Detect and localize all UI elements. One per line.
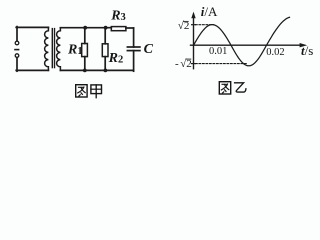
resistor R1 box (82, 44, 88, 57)
terminal lower (15, 54, 19, 58)
wire secondary bottom (60, 69, 133, 71)
wire primary top (16, 26, 48, 28)
图 inner strokes (221, 84, 228, 93)
svg-text:R2: R2 (108, 51, 124, 66)
transformer core line 2 (54, 29, 56, 68)
terminal upper (15, 41, 19, 45)
甲 mid horizontal (91, 88, 102, 90)
wire primary bottom (16, 69, 48, 71)
y-axis arrowhead (191, 12, 195, 19)
sqrt2 vinculum (184, 20, 189, 22)
dashed line sqrt2 (196, 24, 214, 26)
图 inner strokes (78, 87, 85, 96)
AC source dash (15, 49, 19, 51)
svg-text:0.01: 0.01 (209, 46, 227, 57)
caption 图甲 hand-drawn (76, 85, 102, 98)
wire capacitor to bottom (133, 51, 135, 72)
node top R1 (83, 26, 87, 30)
transformer core line 1 (51, 29, 53, 68)
wire secondary top (60, 27, 111, 29)
甲 center vertical (95, 85, 97, 98)
wire secondary top right of R3 (126, 27, 134, 29)
caption 图乙 hand-drawn (219, 82, 246, 94)
svg-text:-√2: -√2 (175, 58, 192, 70)
图 of 图乙: outer box (219, 82, 230, 94)
tick -sqrt2 (192, 63, 196, 65)
svg-text:0.02: 0.02 (266, 47, 284, 58)
x-axis arrowhead (300, 43, 308, 47)
capacitor C plates (127, 46, 139, 48)
svg-text:C: C (144, 42, 154, 57)
svg-text:t/s: t/s (301, 43, 313, 58)
svg-text:i/A: i/A (201, 4, 218, 19)
svg-text:R3: R3 (110, 9, 126, 24)
node bottom R1 (83, 69, 87, 73)
wire R2 branch top (104, 28, 106, 44)
wire primary left lower (16, 57, 18, 71)
wire primary left upper (16, 27, 18, 42)
wire R1 branch top (84, 28, 86, 44)
x-axis (191, 44, 302, 46)
transformer secondary coil (57, 28, 61, 71)
resistor R3 box (111, 27, 126, 31)
resistor R2 box (102, 44, 108, 57)
node bottom R2 (104, 69, 108, 73)
graph: y-axis (193, 15, 195, 69)
sine curve i(t) (194, 17, 290, 66)
tick sqrt2 (192, 24, 196, 26)
dashed line -sqrt2 (196, 63, 248, 65)
乙 of 图乙 (235, 83, 246, 92)
node top R2 (104, 26, 108, 30)
wire R2 branch bottom (104, 57, 106, 71)
wire R1 branch bottom (84, 57, 86, 71)
图 of 图甲: outer box (76, 85, 87, 97)
svg-text:√2: √2 (178, 20, 190, 32)
svg-text:R1: R1 (67, 43, 83, 58)
甲 of 图甲: box (91, 85, 102, 94)
transformer primary coil T1 (45, 27, 49, 70)
wire capacitor drop (133, 28, 135, 47)
-sqrt2 vinculum (186, 58, 191, 60)
